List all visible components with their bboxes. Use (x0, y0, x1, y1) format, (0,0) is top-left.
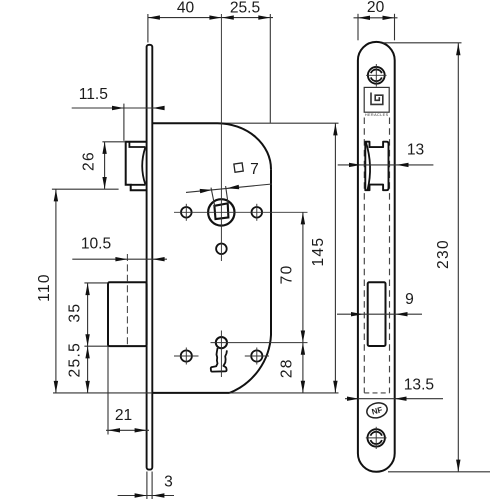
arrow right of dim 25.5 (258, 15, 270, 19)
lock case right edge (270, 169, 272, 335)
arrow right dim 13.5 (395, 397, 407, 401)
deadbolt slot in faceplate (368, 282, 386, 346)
lower-right hole horizontal tick (245, 355, 269, 357)
svg-text:26: 26 (81, 151, 98, 171)
extension line plate left edge (357, 14, 359, 41)
NF certification oval (365, 401, 389, 420)
svg-text:28: 28 (279, 358, 296, 378)
dim 13: dimension line through latch centre (338, 164, 434, 166)
arrow right dim 21 (135, 428, 147, 432)
arrow right dim 13 (397, 163, 409, 167)
dim 145: dimension line (334, 123, 336, 392)
small hole below follower (216, 244, 227, 255)
bottom screw slot lower arc (371, 440, 382, 444)
dim 20: dimension line (354, 17, 398, 19)
svg-text:40: 40 (177, 0, 195, 17)
svg-text:110: 110 (36, 273, 53, 302)
Heracles logo box (364, 87, 389, 112)
deadbolt half-throw dashed line (126, 254, 128, 346)
lower-right hole vertical tick (256, 348, 258, 365)
top screw slot upper arc (371, 69, 382, 73)
arrow up dim 145 (333, 123, 337, 135)
arrow left of dim 40 (148, 15, 160, 19)
svg-text:70: 70 (279, 264, 296, 284)
dim 21: dimension line (106, 429, 149, 431)
dimension chain 40 / 25.5: dimension line (148, 17, 273, 19)
dim 110: dimension line (55, 189, 57, 393)
keyhole vertical centreline (220, 331, 222, 378)
deadbolt (side view, thrown) (108, 282, 147, 346)
extension line at keyhole centre (211, 342, 308, 344)
upper-right hole vertical tick (256, 204, 258, 221)
arrow left dim 13 (349, 163, 361, 167)
arrow left dim 21 (108, 428, 120, 432)
svg-text:13: 13 (407, 142, 424, 159)
arrow right dim 7 (227, 185, 239, 189)
arrow left dim 13.5 (347, 397, 359, 401)
arrow up dim 26 (102, 142, 106, 154)
square symbol (234, 163, 243, 172)
svg-text:3: 3 (164, 474, 173, 491)
arrow up dim 28 (301, 343, 305, 355)
faceplate outline (20 x 230, rounded ends) (358, 42, 395, 472)
extension line at faceplate front (147, 14, 149, 43)
latch bolt head step lines (129, 142, 145, 185)
dim 9: dimension line through slot (337, 313, 422, 315)
latch bevel curve (142, 147, 145, 184)
arrow left dim 9 (351, 312, 363, 316)
dim 13.5: dimension line below case bottom (345, 398, 443, 400)
arrow down dim 26 (102, 177, 106, 189)
arrow up dim 35 (85, 283, 89, 295)
vertical centreline through follower (220, 14, 222, 261)
faceplate (edge view, 3mm thick) (147, 45, 153, 470)
dim 10.5: dimension line (72, 258, 167, 260)
dim 26: dimension line (104, 142, 106, 189)
svg-text:7: 7 (250, 161, 259, 178)
arrow at half-throw line (115, 257, 127, 261)
hidden case left edge (dashed) (363, 118, 365, 393)
svg-text:10.5: 10.5 (81, 235, 112, 252)
upper-right fixing hole (251, 207, 262, 218)
lock case top edge (152, 122, 217, 124)
keyhole bit outline (211, 348, 227, 372)
arrow left dim 20 (358, 16, 370, 20)
svg-text:9: 9 (405, 291, 414, 308)
extension line at case rear (269, 14, 271, 123)
dim square 7: slanted dimension line (186, 184, 272, 192)
latch bolt outline (side view) (126, 142, 147, 190)
arrow left dim 7 (200, 189, 212, 193)
bottom fixing screw head (368, 429, 385, 446)
extension line plate right edge (394, 14, 396, 41)
arrow left dim 3 (135, 493, 147, 497)
svg-text:HERACLES: HERACLES (365, 113, 389, 117)
hidden case bottom edge (dashed) (364, 392, 389, 394)
arrow down dim 35 (85, 334, 89, 346)
arrow right dim 9 (396, 312, 408, 316)
extension line at plate bottom (388, 471, 490, 473)
arrow up dim 230 (456, 43, 460, 55)
upper-left fixing hole (181, 207, 192, 218)
dim 230: dimension line (457, 43, 459, 472)
arrow down dim 230 (456, 460, 460, 472)
svg-text:145: 145 (310, 237, 327, 267)
hidden case right edge (dashed) (389, 118, 391, 393)
arrow up dim 110 (54, 189, 58, 201)
extension line at deadbolt face (107, 346, 109, 434)
lock case bottom-right corner (230, 335, 272, 393)
lower-left fixing hole (181, 350, 192, 361)
arrow down dim 110 (54, 381, 58, 393)
dim chain 70 / 28: dimension line (302, 212, 304, 392)
svg-text:13.5: 13.5 (404, 376, 435, 393)
arrow down dim 145 (333, 381, 337, 393)
extension line at latch bottom (shared with 110 top) (52, 188, 119, 190)
latch bolt front bevel curve (366, 142, 370, 189)
Heracles greek-key emblem (371, 93, 383, 105)
extension line at deadbolt top (84, 282, 108, 284)
extension line at latch face (123, 104, 125, 141)
svg-text:11.5: 11.5 (79, 86, 109, 103)
horizontal centreline through follower and upper holes (174, 211, 308, 213)
top screw slot lower arc (371, 77, 382, 81)
lower-left hole vertical tick (185, 348, 187, 365)
svg-text:25.5: 25.5 (67, 342, 84, 378)
arrow left of dim 25.5 (222, 15, 234, 19)
arrow at latch face (112, 106, 124, 110)
dim chain 35 / 25.5: dimension line (87, 283, 89, 393)
spindle square (7mm) (214, 203, 228, 219)
arrow down dim 70 (301, 331, 305, 343)
upper-left hole vertical tick (185, 204, 187, 221)
top screw vertical centreline (375, 64, 377, 87)
arrow right dim 3 (152, 493, 164, 497)
extension line: case bottom edge extended both sides (53, 392, 339, 394)
arrow up dim 70 (301, 212, 305, 224)
extension line from square right corner (226, 186, 229, 204)
arrow at faceplate (153, 106, 165, 110)
lock case bottom edge (152, 392, 229, 394)
svg-text:21: 21 (115, 407, 132, 424)
arrow down dim 28 (301, 381, 305, 393)
extension line plate back (151, 472, 153, 500)
svg-text:25.5: 25.5 (230, 0, 261, 17)
lower-right fixing hole (251, 350, 262, 361)
latch bolt front view outline (365, 142, 388, 191)
extension line at deadbolt bottom (84, 345, 108, 347)
lock case top-right corner (218, 123, 272, 169)
bottom screw vertical centreline (375, 427, 377, 449)
arrow down dim 25.5 (85, 381, 89, 393)
extension line from square left corner (211, 188, 215, 207)
dim 11.5: dimension line (72, 107, 165, 109)
lower-left hole horizontal tick (174, 355, 199, 357)
top screw horizontal centreline (366, 74, 387, 76)
svg-text:230: 230 (435, 239, 452, 269)
arrow right dim 20 (383, 16, 395, 20)
extension line at plate top (383, 42, 462, 44)
arrow up dim 25.5 (85, 346, 89, 358)
arrow right of dim 40 (209, 15, 221, 19)
extension line at latch top (102, 141, 125, 143)
arrow at faceplate (153, 257, 165, 261)
keyhole circle (216, 337, 227, 348)
svg-text:35: 35 (67, 303, 84, 323)
bottom screw slot upper arc (371, 432, 382, 436)
follower hub circle (208, 199, 234, 225)
extension line: case top edge extended to 145 dimension (152, 122, 338, 124)
extension line plate front (146, 472, 148, 500)
svg-text:20: 20 (367, 0, 385, 16)
bottom screw horizontal centreline (366, 437, 387, 439)
dim 3: dimension line (118, 495, 174, 497)
top fixing screw head (368, 67, 385, 84)
